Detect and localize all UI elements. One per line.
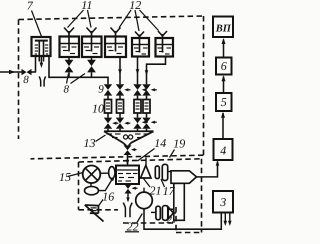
detector box dashed bottom edge	[123, 222, 176, 224]
lamp 15	[83, 166, 101, 184]
label 22 underline	[125, 231, 139, 233]
photometer box dashed bottom stub	[168, 208, 176, 210]
bubbler 12c body	[156, 38, 174, 57]
svg-text:10: 10	[92, 101, 104, 115]
reference slit A	[151, 206, 160, 220]
lower valve on line 2	[116, 118, 131, 132]
wire filter to photocell	[168, 171, 171, 173]
bubbler 11b liquid hatch	[84, 47, 99, 54]
enclosure dashed left edge	[18, 20, 20, 140]
arrow block 5 to 6	[222, 75, 226, 93]
block VP	[213, 17, 233, 38]
photometer box dashed left edge	[78, 162, 80, 210]
mixing trough 13	[104, 131, 154, 145]
leader from label 12 to bubbler 12a	[119, 10, 131, 28]
leader from label 14 to cuvette	[138, 149, 155, 162]
bubbler 11a liquid hatch	[62, 47, 77, 54]
leader from label 12 to bubbler 12c	[140, 10, 159, 31]
trough outlet valve	[124, 145, 137, 155]
wire lower lens to lens junction	[99, 178, 114, 191]
mirror 16	[85, 205, 104, 222]
block 6	[216, 58, 232, 75]
bubbler 12c liquid hatch	[158, 48, 172, 54]
valve on line 3	[133, 84, 146, 95]
lower valve on line 3	[133, 118, 148, 132]
svg-text:4: 4	[220, 143, 226, 157]
leader from label 16 to mirror	[99, 200, 104, 207]
reference slit B	[162, 206, 167, 221]
valve under bubbler 11b	[87, 57, 96, 77]
bubbler 12b liquid hatch	[134, 48, 148, 54]
line 2 feed from bubbler 12a	[118, 57, 122, 85]
valve on line 2	[116, 84, 131, 95]
filter slit A	[155, 166, 159, 179]
bubbler 11b funnel	[87, 28, 97, 52]
svg-text:2: 2	[167, 214, 173, 226]
cuvette liquid hatch	[118, 174, 138, 182]
bubbler 11a funnel	[64, 28, 74, 52]
svg-text:16: 16	[102, 190, 114, 204]
block 3 output arrows	[224, 213, 232, 227]
column 10 on line 1	[105, 96, 112, 118]
trough bubbles	[124, 135, 128, 139]
bubbler 12a liquid hatch	[107, 47, 123, 54]
svg-text:8: 8	[64, 84, 70, 96]
block 4	[214, 139, 233, 160]
column on line 3	[134, 96, 141, 118]
svg-text:19: 19	[173, 137, 185, 151]
trough liquid hatch	[107, 134, 150, 138]
arrow block 4 to 5	[221, 112, 225, 139]
cuvette 14	[116, 166, 139, 185]
column on line 4	[143, 96, 150, 118]
bubbler 11a body	[60, 37, 80, 58]
svg-text:14: 14	[154, 136, 166, 150]
inlet valve 8	[22, 56, 36, 75]
valve under bubbler 11a	[65, 57, 74, 77]
leader from label 7 to vessel 7	[32, 11, 42, 37]
svg-text:3: 3	[219, 195, 226, 209]
leader from label 11 to bubbler 11b	[88, 10, 92, 28]
svg-text:5: 5	[221, 95, 227, 109]
enclosure dashed right edge	[203, 16, 205, 155]
bubbler 12b funnel	[135, 32, 144, 53]
cuvette drain funnel	[123, 203, 132, 218]
label 2 dash	[172, 221, 175, 223]
manifold wire from vessel 7 to line 1	[49, 56, 108, 84]
cuvette drain valve 21	[124, 184, 137, 202]
lamp lower lens	[85, 183, 99, 195]
vessel 7 body	[32, 37, 51, 62]
wire photocell to block 4	[197, 160, 220, 177]
valve 9 on line 1	[104, 84, 112, 95]
sample inlet arrow	[0, 70, 22, 74]
leader from label 21 to triangle	[144, 179, 151, 188]
bubbler 12a funnel	[111, 28, 121, 52]
photometer box dashed top edge	[79, 159, 202, 162]
feed wire trough valve to cuvette	[126, 155, 130, 165]
enclosure dashed bottom edge	[31, 155, 204, 159]
photocell 19 horn	[171, 171, 197, 184]
arrow block 6 to VP	[222, 38, 226, 58]
bubbler 12c funnel	[158, 31, 167, 53]
lower valve on line 1	[104, 118, 119, 132]
detector box dashed right step	[175, 207, 177, 233]
lower valve on line 4	[142, 118, 157, 132]
photometer box dashed right edge	[201, 159, 203, 233]
motor supply wire	[144, 209, 221, 230]
block 3	[213, 191, 233, 213]
vessel 7 drain funnel	[39, 76, 45, 86]
leader from label 19	[170, 150, 175, 158]
photometer box dashed bottom edge left part	[79, 209, 119, 211]
leader from label 8 to valve 11b	[71, 74, 86, 84]
svg-text:8: 8	[23, 74, 29, 86]
bubbler 12a body	[105, 37, 126, 58]
svg-text:13: 13	[84, 136, 96, 150]
enclosure dashed top edge	[19, 16, 204, 20]
svg-text:7: 7	[27, 0, 34, 13]
leader from label 11 to bubbler 11a	[68, 10, 84, 28]
leader from label 17 to filter	[161, 179, 165, 187]
leader from label 22 to motor	[137, 214, 142, 223]
valve on line 4	[142, 84, 157, 95]
line 4 feed elbow from bubbler 12c	[145, 57, 166, 85]
svg-text:9: 9	[98, 83, 104, 95]
svg-text:6: 6	[221, 59, 227, 73]
filter slit B	[162, 164, 167, 180]
chopper motor 22	[136, 188, 153, 209]
condenser lens	[100, 167, 115, 179]
bubbler 12b body	[132, 38, 149, 57]
leader from label 12 to bubbler 12b	[135, 10, 139, 31]
reference photodiode 2	[168, 207, 176, 219]
bubble trap 21 triangle	[141, 158, 152, 179]
svg-text:ВП: ВП	[215, 24, 232, 35]
block 5	[216, 93, 232, 111]
vessel 7 packing hatch	[35, 45, 49, 54]
leader from label 15 to lamp	[68, 173, 84, 177]
leader from label 13 to trough	[96, 135, 106, 142]
leader from label 8 to valve 11a	[67, 74, 69, 84]
column on line 2	[117, 96, 124, 118]
vessel 7 outlet arrow	[40, 56, 44, 68]
bubbler 11b body	[82, 37, 102, 58]
line 3 feed from bubbler 12b	[136, 57, 140, 85]
photometer box dashed bottom edge right part	[176, 232, 202, 234]
svg-text:15: 15	[59, 170, 71, 184]
light duct below photocell	[174, 183, 185, 220]
